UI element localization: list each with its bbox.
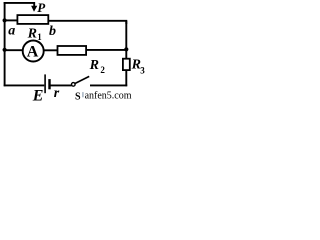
wire: switch to right wall <box>90 84 127 86</box>
svg-text:R: R <box>89 58 99 73</box>
wire: left bus to rheostat left terminal <box>4 19 18 21</box>
wire: right vertical bus <box>125 21 127 86</box>
switch S blade <box>75 76 89 83</box>
svg-text:A: A <box>27 44 39 61</box>
svg-text:anfen5.com: anfen5.com <box>85 91 132 102</box>
ammeter A <box>23 41 44 62</box>
wire: ammeter to R2 <box>44 49 58 51</box>
slider arrow P (wiper arrowhead) <box>31 6 37 12</box>
wire: left vertical bus <box>4 2 6 86</box>
svg-text:1: 1 <box>37 32 42 42</box>
wire: battery to switch <box>51 84 72 86</box>
svg-text:E: E <box>32 88 44 102</box>
svg-text:3: 3 <box>140 65 145 75</box>
resistor R2 <box>58 46 87 55</box>
node junction dot (right, R2/R3 net) <box>124 47 128 51</box>
switch S pivot circle <box>72 83 76 87</box>
svg-text:R: R <box>27 27 37 42</box>
battery E: long plate (+) <box>44 74 46 93</box>
svg-text:a: a <box>8 23 15 38</box>
wire: top wire from left wall to slider arrow <box>4 3 35 7</box>
node: ammeter branch junction dot (left) <box>3 48 7 52</box>
watermark fragment <box>82 92 84 97</box>
node a junction dot <box>3 18 7 22</box>
svg-text:2: 2 <box>100 65 105 75</box>
battery E: short plate (-) <box>48 79 50 89</box>
wire: bottom left (left wall to battery) <box>4 84 45 86</box>
svg-text:r: r <box>54 86 60 101</box>
svg-text:S: S <box>75 91 81 102</box>
wire: R2 to right bus junction <box>86 49 126 51</box>
svg-text:b: b <box>49 24 56 39</box>
svg-text:P: P <box>37 0 46 15</box>
rheostat R1 body <box>17 15 48 24</box>
wire: rheostat right terminal to right bus (top-right corner) <box>48 21 126 24</box>
wire: left bus junction to ammeter <box>4 49 24 51</box>
resistor R3 <box>123 59 130 70</box>
